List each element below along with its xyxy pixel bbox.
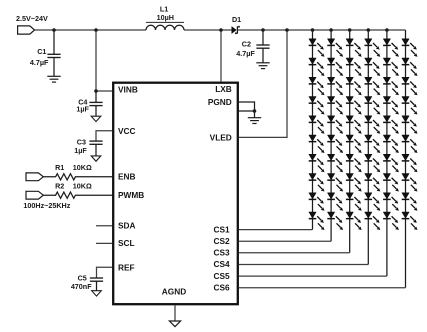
LED string column 1 (10 LEDs) [309, 28, 325, 230]
svg-text:10KΩ: 10KΩ [73, 181, 92, 190]
LED string column 5 (10 LEDs) [383, 28, 399, 276]
svg-text:1µF: 1µF [76, 105, 89, 114]
resistor R2 10KOhm [43, 181, 112, 198]
ground (signal) under C4 [91, 116, 101, 121]
svg-text:D1: D1 [232, 15, 241, 24]
svg-text:CS2: CS2 [213, 236, 230, 246]
svg-text:100Hz~25KHz: 100Hz~25KHz [23, 201, 70, 210]
junction VIN/C1 [52, 28, 56, 32]
svg-text:CS1: CS1 [213, 224, 230, 234]
LED string column 3 (10 LEDs) [346, 28, 362, 253]
wire VCC stub [96, 131, 112, 141]
svg-text:10KΩ: 10KΩ [73, 163, 92, 172]
svg-text:SCL: SCL [118, 238, 135, 248]
wire VIN rail drop to VINB [96, 30, 112, 91]
LED string column 6 (10 LEDs) [402, 30, 418, 288]
svg-text:2.5V~24V: 2.5V~24V [16, 14, 48, 23]
svg-text:C2: C2 [242, 40, 251, 49]
node PWMB input terminal 100Hz~25KHz [23, 191, 70, 210]
svg-text:470nF: 470nF [71, 282, 92, 291]
wire SCL stub [96, 242, 112, 244]
node ENB input terminal [26, 173, 43, 181]
capacitor C3 1uF [74, 137, 102, 156]
svg-text:10µH: 10µH [157, 13, 174, 22]
wire CS4 to LED column 4 [239, 264, 369, 266]
wire LXB: rail to IC top [220, 30, 222, 82]
svg-text:VCC: VCC [118, 126, 136, 136]
svg-text:REF: REF [118, 262, 135, 272]
junction rail/VLED [285, 28, 289, 32]
svg-text:SDA: SDA [118, 221, 136, 231]
wire VIN rail: tag to L1 [35, 29, 146, 31]
wire AGND stem [174, 305, 176, 321]
ground (signal) AGND [169, 321, 180, 327]
svg-text:C1: C1 [37, 47, 46, 56]
wire REF stub [97, 267, 113, 278]
svg-text:VINB: VINB [118, 85, 138, 95]
resistor R1 10KOhm [43, 163, 112, 180]
junction VINB/C4 [94, 89, 98, 93]
LED string column 4 (10 LEDs) [365, 28, 381, 264]
ground (earth) PGND [248, 118, 261, 124]
wire CS5 to LED column 5 [239, 275, 387, 277]
svg-text:1µF: 1µF [74, 146, 87, 155]
wire CS6 to LED column 6 [239, 287, 406, 289]
svg-text:PWMB: PWMB [118, 190, 144, 200]
wire VLED sense: IC to rail [239, 30, 287, 137]
ground (signal) under C5 [92, 291, 102, 296]
svg-text:4.7µF: 4.7µF [30, 58, 49, 67]
junction PGND [253, 109, 257, 113]
svg-text:4.7µF: 4.7µF [236, 49, 255, 58]
LED string column 2 (10 LEDs) [327, 28, 343, 241]
wire CS3 to LED column 3 [239, 252, 350, 254]
capacitor C1 4.7uF [30, 30, 61, 76]
junction LXB [219, 28, 223, 32]
svg-text:R1: R1 [55, 163, 64, 172]
wire D1 cathode to LED rail [237, 29, 405, 31]
node VIN input terminal 2.5V~24V [16, 14, 48, 34]
svg-text:ENB: ENB [118, 172, 136, 182]
svg-text:CS4: CS4 [213, 259, 230, 269]
svg-text:PGND: PGND [208, 97, 232, 107]
svg-text:CS5: CS5 [213, 271, 230, 281]
svg-text:CS3: CS3 [213, 248, 230, 258]
schottky diode D1 [232, 15, 241, 34]
ground (earth) under C2 [256, 63, 269, 69]
capacitor C4 1uF [76, 91, 102, 116]
capacitor C2 4.7uF [236, 30, 269, 63]
ground (earth) under C1 [47, 76, 60, 82]
wire CS2 to LED column 2 [239, 240, 331, 242]
svg-text:R2: R2 [55, 181, 64, 190]
junction VIN/VINB [94, 28, 98, 32]
ground (signal) under C3 [91, 156, 101, 161]
svg-text:AGND: AGND [162, 286, 186, 296]
wire L1 to D1 anode [184, 29, 232, 31]
svg-text:VLED: VLED [210, 133, 232, 143]
wire CS1 to LED column 1 [239, 229, 313, 231]
svg-text:CS6: CS6 [213, 282, 230, 292]
capacitor C5 470nF [71, 274, 103, 291]
wire PGND stubs [239, 102, 255, 118]
inductor L1 10uH [146, 4, 184, 30]
op-amp U1 LED driver IC body [113, 83, 238, 305]
wire SDA stub [96, 225, 112, 227]
svg-text:LXB: LXB [215, 84, 232, 94]
junction rail/C2 [261, 28, 265, 32]
